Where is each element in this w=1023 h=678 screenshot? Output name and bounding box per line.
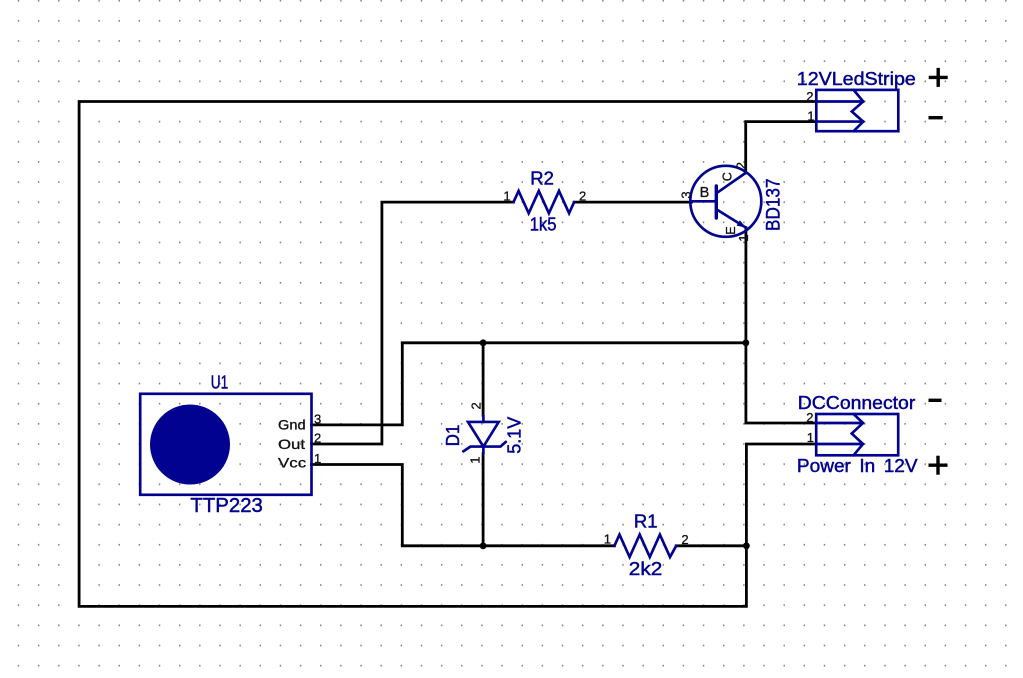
svg-text:1: 1 (807, 430, 814, 445)
svg-text:1: 1 (468, 457, 483, 464)
svg-text:1: 1 (503, 189, 510, 204)
svg-text:1: 1 (736, 235, 751, 242)
svg-text:3: 3 (314, 412, 321, 427)
svg-text:2: 2 (734, 162, 749, 169)
svg-text:5.1V: 5.1V (504, 417, 524, 454)
svg-text:Gnd: Gnd (278, 416, 306, 432)
svg-text:1: 1 (604, 532, 611, 547)
svg-text:D1: D1 (443, 425, 463, 447)
svg-text:C: C (720, 172, 734, 181)
svg-text:2: 2 (579, 189, 586, 204)
svg-text:R1: R1 (634, 512, 658, 532)
svg-text:1: 1 (314, 451, 321, 466)
svg-text:B: B (700, 185, 710, 201)
svg-text:TTP223: TTP223 (190, 495, 263, 517)
svg-text:2k2: 2k2 (629, 559, 663, 579)
svg-text:2: 2 (681, 532, 688, 547)
svg-text:3: 3 (679, 191, 694, 198)
svg-text:1: 1 (807, 109, 814, 124)
svg-text:R2: R2 (530, 168, 554, 188)
svg-text:BD137: BD137 (764, 179, 785, 232)
svg-text:12VLedStripe: 12VLedStripe (797, 69, 916, 89)
svg-text:Out: Out (278, 436, 305, 452)
svg-text:DCConnector: DCConnector (798, 393, 916, 413)
svg-text:1k5: 1k5 (530, 214, 557, 234)
svg-text:Power In 12V: Power In 12V (797, 456, 918, 476)
svg-text:Vcc: Vcc (278, 455, 306, 471)
svg-text:2: 2 (469, 402, 484, 409)
svg-text:U1: U1 (211, 372, 229, 392)
svg-text:2: 2 (314, 431, 321, 446)
svg-text:2: 2 (806, 89, 813, 104)
svg-text:2: 2 (806, 410, 813, 425)
svg-text:E: E (724, 226, 738, 234)
